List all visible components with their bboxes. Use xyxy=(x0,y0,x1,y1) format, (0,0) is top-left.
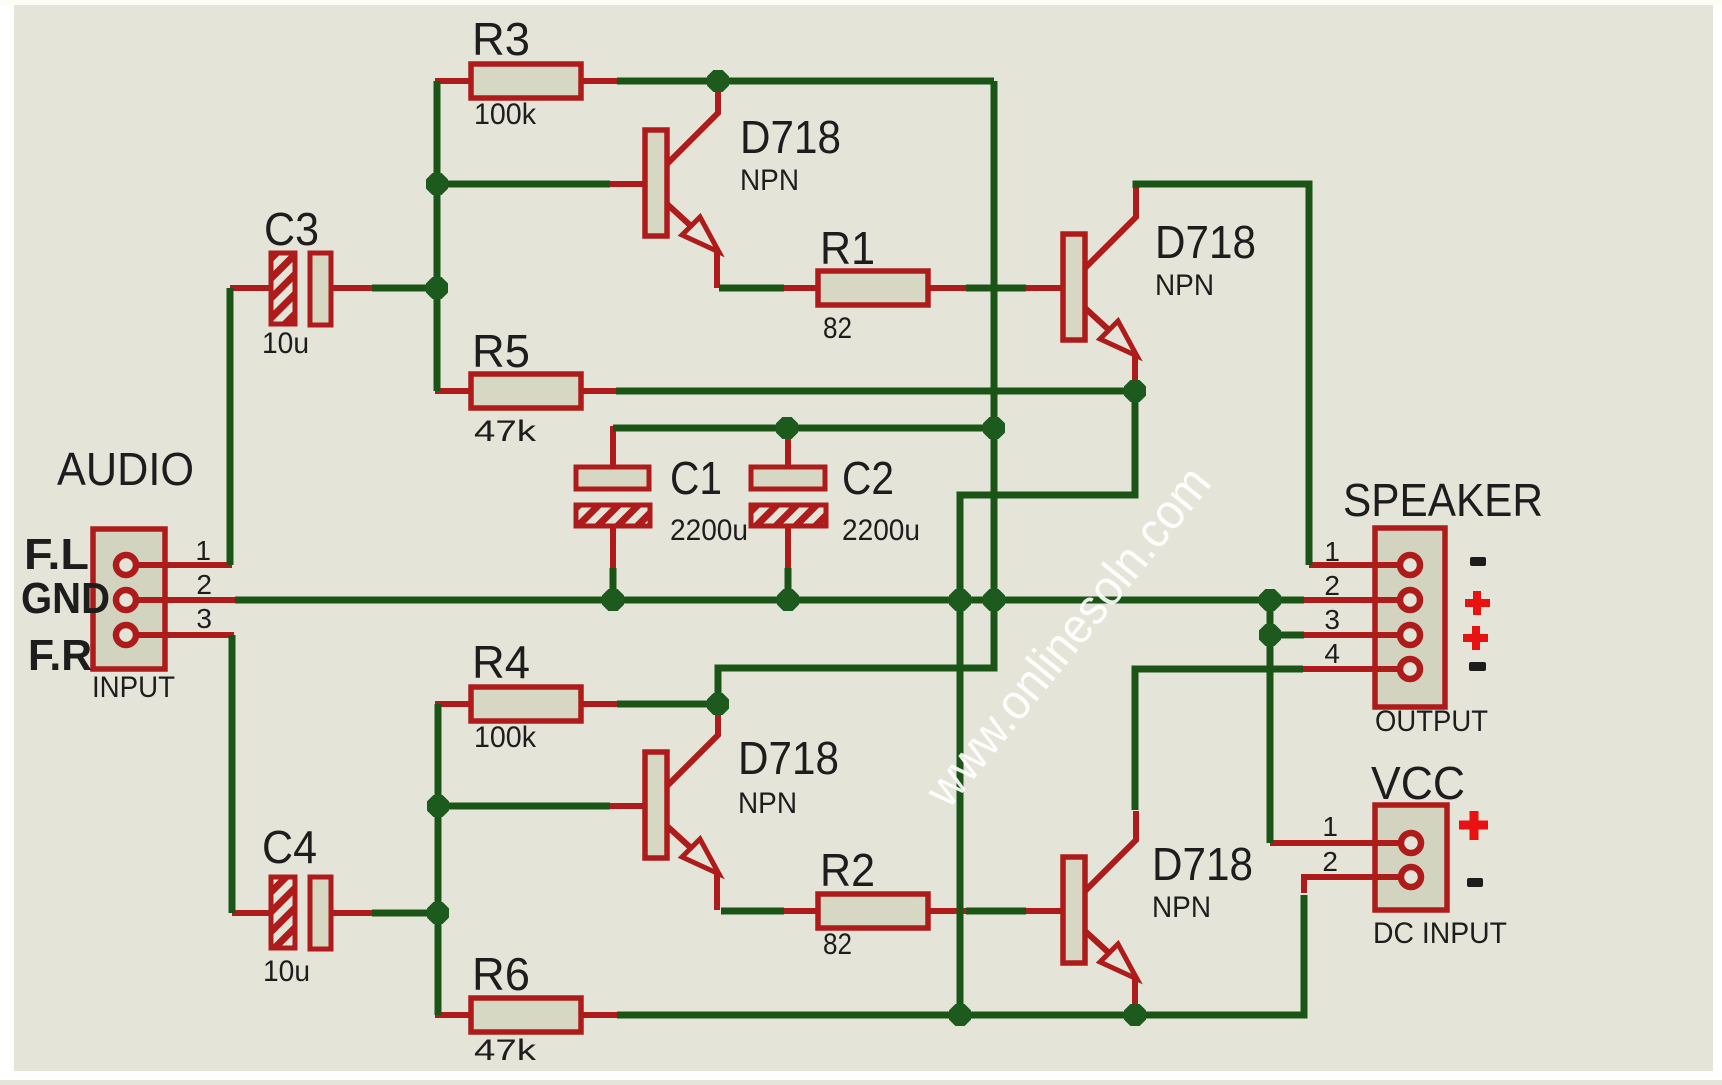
capacitor C1 xyxy=(576,467,650,526)
junction node right riser/gnd xyxy=(983,589,1005,611)
svg-text:47k: 47k xyxy=(474,415,537,448)
svg-text:2: 2 xyxy=(196,569,212,600)
wire Q3 base wire xyxy=(438,803,610,810)
svg-text:100k: 100k xyxy=(474,721,537,754)
wire R3 to top-right bus xyxy=(617,78,994,85)
polarity minus speaker pin1 xyxy=(1470,557,1486,566)
wire Q1 emitter to R1 xyxy=(719,285,784,292)
wire audio pin3 to C4 riser xyxy=(229,635,236,913)
polarity plus speaker pin3 xyxy=(1463,626,1488,650)
svg-text:F.L: F.L xyxy=(24,530,89,579)
svg-text:D718: D718 xyxy=(740,111,841,163)
wire C3 right to node xyxy=(372,285,437,292)
transistor Q2 D718 NPN xyxy=(1063,188,1137,392)
wire C4 left stub xyxy=(232,910,271,916)
transistor Q3 D718 NPN xyxy=(645,706,719,910)
junction node top bus/right riser xyxy=(983,417,1005,439)
wire Q2 collector to speaker pin1 xyxy=(1136,184,1309,565)
wire Q4 base stub xyxy=(1026,908,1063,914)
svg-text:2200u: 2200u xyxy=(842,514,920,547)
wire C2 top stub xyxy=(785,426,791,467)
svg-text:R4: R4 xyxy=(472,636,530,688)
wire R5 left stub xyxy=(435,388,471,394)
wire speaker pin3 link xyxy=(1270,632,1304,639)
wire C4 right to node xyxy=(372,910,438,917)
wire VCC pin1 stub xyxy=(1270,840,1400,846)
wire R6 right stub xyxy=(581,1012,617,1018)
junction node emitter riser/gnd xyxy=(949,589,971,611)
svg-text:R5: R5 xyxy=(472,325,530,377)
wire R2 to Q4 base xyxy=(966,908,1026,915)
svg-text:R1: R1 xyxy=(820,222,875,274)
resistor R4 xyxy=(471,687,581,721)
wire C2 bottom stub xyxy=(785,526,791,568)
resistor R5 xyxy=(471,374,581,408)
wire C3 left stub xyxy=(230,285,271,291)
svg-text:1: 1 xyxy=(195,535,211,566)
capacitor C3 xyxy=(271,253,331,325)
svg-text:INPUT: INPUT xyxy=(92,671,175,704)
wire Q1 base wire xyxy=(437,181,610,188)
transistor Q4 D718 NPN xyxy=(1063,811,1137,1015)
junction node Q4 emitter/bottom bus xyxy=(1124,1004,1146,1026)
svg-text:NPN: NPN xyxy=(738,787,797,820)
wire audio pin1 to C3 riser xyxy=(227,288,234,565)
wire R3 left stub xyxy=(435,78,471,84)
wire R4 left stub xyxy=(435,701,471,707)
resistor R1 xyxy=(818,271,928,305)
wire R3 right stub xyxy=(581,78,617,84)
svg-text:DC INPUT: DC INPUT xyxy=(1373,917,1507,950)
polarity plus vcc pin1 xyxy=(1459,811,1488,840)
wire C1 top stub xyxy=(610,426,616,467)
wire C3 right stub xyxy=(331,285,372,291)
svg-text:4: 4 xyxy=(1324,638,1340,669)
wire VCC pin2 stub xyxy=(1304,877,1400,893)
junction node C2 top xyxy=(776,417,798,439)
svg-text:47k: 47k xyxy=(474,1034,537,1067)
svg-text:VCC: VCC xyxy=(1371,757,1465,809)
connector J3 VCC DC INPUT body xyxy=(1375,805,1447,910)
wire GND bus audio pin2 to speaker pin2 xyxy=(235,597,1304,604)
connector J2 SPEAKER OUTPUT body xyxy=(1375,528,1445,707)
svg-text:D718: D718 xyxy=(738,732,839,784)
svg-text:3: 3 xyxy=(1324,604,1340,635)
svg-text:2: 2 xyxy=(1322,846,1338,877)
wire Q2 base stub xyxy=(1026,285,1063,291)
junction node Q3 base xyxy=(427,795,449,817)
svg-text:NPN: NPN xyxy=(1155,269,1214,302)
wire C2 bottom link xyxy=(785,568,792,600)
svg-text:C2: C2 xyxy=(842,452,894,504)
wire speaker pin1 stub xyxy=(1309,562,1400,568)
wire audio pin3 stub xyxy=(136,632,234,638)
connector J1 AUDIO pin circles xyxy=(116,555,136,645)
wire bottom bus to VCC pin2 xyxy=(617,895,1304,1015)
wire R1 to Q2 base xyxy=(966,285,1026,292)
svg-text:NPN: NPN xyxy=(740,164,799,197)
svg-text:C4: C4 xyxy=(262,821,317,873)
svg-text:1: 1 xyxy=(1322,811,1338,842)
junction node C3 xyxy=(426,277,448,299)
svg-text:82: 82 xyxy=(823,312,852,345)
svg-text:R6: R6 xyxy=(472,948,530,1000)
wire R5 to Q2 emitter node xyxy=(616,388,1135,395)
wire audio pin2 stub xyxy=(136,597,237,603)
svg-text:10u: 10u xyxy=(262,327,309,360)
svg-text:10u: 10u xyxy=(263,955,310,988)
junction node Q1 base xyxy=(426,173,448,195)
junction node speaker pin2 xyxy=(1259,589,1281,611)
border strips xyxy=(0,0,14,1080)
connector J3 VCC pin circles xyxy=(1401,833,1421,887)
resistor R6 xyxy=(471,998,581,1032)
connector J2 SPEAKER pin circles xyxy=(1400,555,1420,679)
wire C4 right stub xyxy=(331,910,372,916)
wire left riser R3/R5 xyxy=(434,81,441,391)
wire Q3 base stub xyxy=(610,803,645,809)
wire audio pin1 stub xyxy=(136,562,232,568)
junction node C2 gnd xyxy=(777,589,799,611)
junction node bottom bus A xyxy=(949,1004,971,1026)
svg-text:2200u: 2200u xyxy=(670,514,748,547)
capacitor C4 xyxy=(271,877,331,949)
svg-text:NPN: NPN xyxy=(1152,891,1211,924)
wire speaker pin3 stub xyxy=(1304,632,1400,638)
wire C1 bottom link xyxy=(610,568,617,600)
svg-text:AUDIO: AUDIO xyxy=(57,443,194,495)
wire R1 right stub xyxy=(928,285,966,291)
wire R2 left stub xyxy=(784,908,818,914)
svg-text:R2: R2 xyxy=(820,844,875,896)
polarity minus vcc pin2 xyxy=(1467,878,1483,887)
wire R2 right stub xyxy=(928,908,966,914)
svg-text:D718: D718 xyxy=(1152,838,1253,890)
svg-text:SPEAKER: SPEAKER xyxy=(1343,474,1543,526)
wire C1 bottom stub xyxy=(610,526,616,568)
svg-text:82: 82 xyxy=(823,928,852,961)
wire speaker pin4 stub xyxy=(1303,666,1400,672)
connector J1 AUDIO INPUT body xyxy=(93,529,165,669)
junction node Q2 emitter/R5 xyxy=(1124,380,1146,402)
wire right riser down to R4 node xyxy=(718,81,994,704)
junction node R4/Q3 collector xyxy=(707,693,729,715)
resistor R2 xyxy=(818,894,928,928)
svg-text:F.R: F.R xyxy=(28,631,92,680)
wire Q3 emitter to R2 xyxy=(721,908,784,915)
junction node speaker pin3 xyxy=(1259,624,1281,646)
wire left riser R4/R6 xyxy=(435,704,442,1015)
junction node C1 gnd xyxy=(602,589,624,611)
wire R4 to node xyxy=(617,701,718,708)
svg-text:100k: 100k xyxy=(474,98,537,131)
svg-text:C1: C1 xyxy=(670,452,722,504)
wire R5 right stub xyxy=(581,388,616,394)
wire R4 right stub xyxy=(581,701,617,707)
wire Q2 emitter to bottom bus xyxy=(960,391,1135,1016)
resistor R3 xyxy=(471,64,581,98)
svg-text:1: 1 xyxy=(1324,536,1340,567)
wire speaker plus riser to VCC pin1 xyxy=(1267,600,1274,843)
junction node C4 xyxy=(427,902,449,924)
svg-text:OUTPUT: OUTPUT xyxy=(1375,705,1488,738)
svg-text:D718: D718 xyxy=(1155,216,1256,268)
svg-text:2: 2 xyxy=(1324,570,1340,601)
capacitor C2 xyxy=(751,467,826,526)
wire C1/C2 top bus xyxy=(613,425,994,432)
svg-text:GND: GND xyxy=(21,574,110,623)
svg-text:3: 3 xyxy=(196,603,212,634)
transistor Q1 D718 NPN xyxy=(645,84,719,288)
wire speaker pin2 stub xyxy=(1304,597,1400,603)
polarity plus speaker pin2 xyxy=(1465,591,1490,615)
wire Q1 base stub xyxy=(610,181,645,187)
polarity minus speaker pin4 xyxy=(1469,662,1486,671)
wire Q4 collector to speaker pin4 xyxy=(1135,669,1303,810)
svg-text:C3: C3 xyxy=(264,203,319,255)
wire R1 left stub xyxy=(784,285,818,291)
wire R6 left stub xyxy=(435,1012,471,1018)
junction node R3/Q1 collector xyxy=(707,70,729,92)
svg-text:R3: R3 xyxy=(472,13,530,65)
